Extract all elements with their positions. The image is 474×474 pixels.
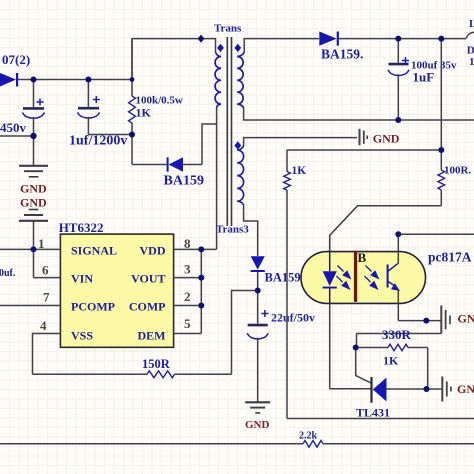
svg-text:pc817A: pc817A <box>428 250 472 265</box>
node 100R top <box>438 147 444 153</box>
wire opto collector up <box>398 234 474 263</box>
wire LED cathode down to TL431 <box>330 303 371 388</box>
ground earth under 22uf <box>245 402 270 413</box>
node collector <box>395 231 401 237</box>
svg-text:1K: 1K <box>136 106 152 120</box>
svg-text:GND: GND <box>373 132 400 146</box>
svg-text:GND: GND <box>457 382 474 396</box>
svg-text:GND: GND <box>458 312 474 326</box>
opto base bar B <box>354 250 367 302</box>
svg-text:6: 6 <box>42 263 49 278</box>
opto LED <box>323 235 337 303</box>
svg-text:100R.: 100R. <box>444 165 471 177</box>
wire input bus y79.5 <box>18 79 132 81</box>
pin 3 <box>174 262 202 278</box>
resistor 330R <box>356 327 428 389</box>
GND port emitter <box>441 306 474 334</box>
node bus-C2 <box>85 77 91 83</box>
svg-text:Trans: Trans <box>214 23 242 35</box>
svg-text:1uF: 1uF <box>413 70 435 85</box>
svg-text:1uf/1200v: 1uf/1200v <box>69 133 127 148</box>
svg-text:450v: 450v <box>0 120 27 135</box>
diode D1 1N4007(2) input <box>0 52 30 87</box>
svg-text:GND: GND <box>245 419 270 431</box>
pin 5 <box>174 316 202 334</box>
node bus-C1 <box>31 77 37 83</box>
resistor 100R <box>438 39 471 206</box>
svg-text:8: 8 <box>184 236 191 251</box>
capacitor C2 1uf/1200v <box>69 80 132 149</box>
pin 1 <box>0 236 60 251</box>
GND port aux <box>360 129 400 146</box>
node C1-return <box>30 133 36 139</box>
svg-text:Trans3: Trans3 <box>216 224 249 236</box>
capacitor 22uf/50v <box>247 291 315 403</box>
svg-text:5: 5 <box>184 316 191 331</box>
pin 6 <box>34 249 61 277</box>
node R1-C2 <box>129 132 135 138</box>
svg-text:330R: 330R <box>382 327 412 342</box>
wire ground2 to pin1 row <box>33 221 35 250</box>
svg-text:1: 1 <box>38 236 45 251</box>
opto phototransistor <box>387 263 400 291</box>
wire aux top to GND port <box>244 138 357 146</box>
wire divider to right edge <box>287 418 474 420</box>
svg-text:B: B <box>358 250 367 265</box>
svg-text:4: 4 <box>40 318 47 333</box>
capacitor 100uf 35v <box>388 39 457 120</box>
transformer secondary winding <box>234 44 244 108</box>
chip U1 HT6322 <box>59 220 174 347</box>
wire VDD node to 150R riser <box>232 291 258 375</box>
TL431 shunt regulator <box>356 377 442 420</box>
wire top rail left <box>132 39 216 80</box>
optocoupler U2 pc817A body <box>301 252 426 304</box>
svg-text:150R: 150R <box>142 357 171 371</box>
node TL431 anode <box>424 386 430 392</box>
transformer aux winding Trans3 <box>216 141 249 235</box>
node primary top <box>198 35 205 43</box>
ground earth inverted above pin1 <box>19 210 48 221</box>
GND port TL431 anode <box>442 377 474 402</box>
svg-text:TL431: TL431 <box>356 406 390 420</box>
diode BA159 output rectifier <box>319 32 363 62</box>
svg-text:BA159: BA159 <box>265 271 301 285</box>
node pin3 <box>198 275 204 281</box>
opto receiver arrows <box>365 266 380 291</box>
wire opto emitter down <box>397 290 399 321</box>
inductor stub at right edge <box>466 32 474 38</box>
svg-text:VDD: VDD <box>140 244 166 258</box>
svg-text:SIGNAL: SIGNAL <box>71 244 117 258</box>
wire emitter row to GND port <box>398 320 441 322</box>
svg-text:3: 3 <box>184 262 191 277</box>
ground earth under C1 <box>19 166 48 177</box>
node out cap <box>395 36 401 42</box>
svg-text:BA159: BA159 <box>164 174 204 189</box>
svg-text:2.2k: 2.2k <box>299 431 318 442</box>
svg-text:GND: GND <box>20 196 47 210</box>
resistor 2.2k on feedback rail <box>0 431 474 448</box>
wire 100R to opto LED diagonal <box>330 206 442 252</box>
pin 7 <box>0 290 60 306</box>
node pin1-pin6 <box>31 246 37 252</box>
svg-text:L1: L1 <box>469 18 474 30</box>
node emitter gnd <box>423 318 429 324</box>
pin 2 <box>174 289 202 306</box>
svg-text:22uf/50v: 22uf/50v <box>271 311 315 325</box>
svg-text:DC: DC <box>467 45 474 57</box>
wire secondary top to rail <box>244 39 319 53</box>
svg-text:COMP: COMP <box>129 300 166 314</box>
node vdd aux <box>255 288 261 294</box>
resistor R1 100k/0.5w 1K <box>129 39 183 165</box>
svg-text:VOUT: VOUT <box>131 272 165 286</box>
wire AC return left edge <box>0 135 34 137</box>
pin 4 <box>33 318 61 374</box>
svg-text:07(2): 07(2) <box>2 52 30 67</box>
wire secondary bottom return rail <box>244 108 474 120</box>
svg-text:DEM: DEM <box>138 329 166 343</box>
node out 100R <box>438 36 444 42</box>
wire clamp to primary bottom <box>202 124 217 165</box>
svg-text:1K: 1K <box>383 354 399 368</box>
svg-text:GND: GND <box>20 182 47 196</box>
resistor 1K aux sense <box>284 150 442 419</box>
svg-text:2: 2 <box>184 289 191 304</box>
svg-text:VIN: VIN <box>71 272 93 286</box>
wire TL431 ref <box>356 348 371 384</box>
node pin8 <box>198 246 204 252</box>
opto LED arrows <box>337 266 352 291</box>
svg-text:7: 7 <box>43 290 50 305</box>
node bus-R1 <box>130 77 135 82</box>
diode BA159 aux rectifier <box>251 256 301 290</box>
wire pins 8-3-2-5 bus <box>200 249 202 333</box>
node return cap <box>395 117 401 123</box>
diode BA159 clamp <box>132 157 204 188</box>
wire aux bottom to diode <box>244 205 258 256</box>
pin 8 <box>174 236 217 251</box>
svg-text:BA159.: BA159. <box>321 47 363 62</box>
wire emitter link down to 330R node <box>357 334 442 348</box>
svg-text:PCOMP: PCOMP <box>71 300 115 314</box>
svg-text:1K: 1K <box>292 165 307 177</box>
wire primary drain down to pin8 <box>216 108 218 250</box>
svg-text:VSS: VSS <box>71 329 93 343</box>
node junction dots <box>30 35 444 392</box>
capacitor C1 450v <box>0 80 45 166</box>
node 330R left <box>353 345 359 351</box>
wire output rail <box>339 38 466 40</box>
svg-text:1u: 1u <box>469 56 474 68</box>
transformer primary winding <box>215 44 224 108</box>
svg-text:00uf.: 00uf. <box>0 268 16 279</box>
svg-text:HT6322: HT6322 <box>59 220 104 235</box>
resistor 150R <box>33 357 232 378</box>
transformer core <box>227 37 231 226</box>
node pin2 <box>198 303 204 309</box>
